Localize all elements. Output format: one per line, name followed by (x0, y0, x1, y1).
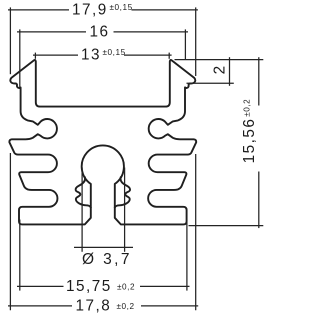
svg-text:15,75: 15,75 (66, 278, 112, 295)
svg-text:2: 2 (212, 64, 229, 74)
central screw boss right barb wall (115, 177, 130, 207)
shared right extension line (17,9 top / 17,8 bottom) (195, 7, 197, 310)
svg-text:±0,2: ±0,2 (117, 282, 135, 291)
dimension 2 flange lip depth (rotated) (175, 57, 264, 86)
svg-text:±0,2: ±0,2 (242, 99, 251, 117)
dimension 15,75 +-0,2 base width (17, 220, 190, 291)
aluminium LED profile cross-section outline (9, 60, 196, 224)
central screw boss left barb wall (76, 177, 91, 207)
dimension 13 +-0,15 channel opening (33, 53, 172, 59)
svg-text:16: 16 (90, 24, 110, 41)
svg-text:17,8: 17,8 (76, 298, 112, 315)
dimension diameter 3,7 central screw hole (74, 168, 133, 252)
svg-text:±0,15: ±0,15 (110, 3, 133, 12)
dimension 17,9 +-0,15 top overall width (8, 9, 198, 11)
dimension 17,8 +-0,2 overall fin width (8, 305, 198, 307)
shared left extension line (17,9 top / 17,8 bottom) (9, 7, 11, 310)
svg-text:±0,2: ±0,2 (117, 302, 135, 311)
dimension 15,56 +-0,2 overall height (rotated) (189, 57, 264, 228)
svg-text:17,9: 17,9 (72, 1, 108, 18)
svg-text:13: 13 (81, 47, 101, 64)
svg-text:Ø 3,7: Ø 3,7 (82, 251, 132, 268)
svg-text:±0,15: ±0,15 (103, 48, 126, 57)
svg-text:15,56: 15,56 (241, 118, 258, 164)
dimension 16 channel outer width (17, 29, 188, 87)
